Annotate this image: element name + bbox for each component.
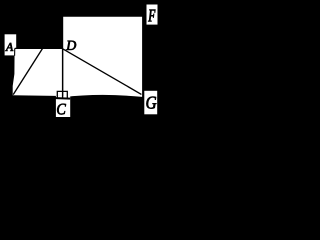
wire: vertical segment DC xyxy=(62,48,64,97)
wire: left edge of square xyxy=(14,48,16,55)
wire: top edge of square AD xyxy=(15,47,63,49)
node F xyxy=(148,10,155,22)
right-angle marker at C xyxy=(57,91,67,98)
node A xyxy=(5,43,13,51)
label box C xyxy=(56,96,70,117)
node G xyxy=(146,97,156,109)
wire: fold line in square (B to point on AD) xyxy=(13,49,42,95)
label box F xyxy=(147,5,158,25)
wire: diagonal DG xyxy=(63,49,141,95)
node C xyxy=(57,104,66,115)
label box A xyxy=(5,34,17,55)
quadrilateral ABCD (left white square) xyxy=(13,48,63,96)
wire: bottom edge line (visible across C box) xyxy=(13,97,70,99)
rectangle DEFG (large white rectangle, right) xyxy=(63,17,142,97)
label box G xyxy=(144,91,157,115)
node D xyxy=(66,41,76,50)
